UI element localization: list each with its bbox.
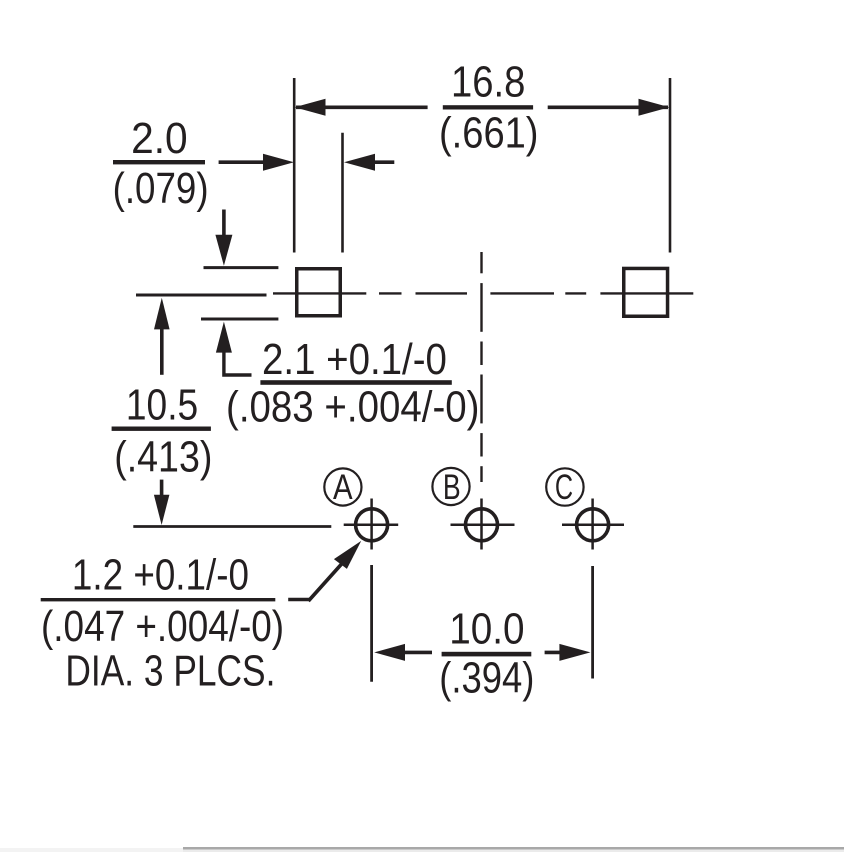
up arrow with L leader (2.1 dim bottom) (216, 322, 232, 353)
fraction bar 2.0 (113, 160, 205, 164)
fraction bar 16.8 (443, 105, 533, 109)
svg-text:DIA. 3 PLCS.: DIA. 3 PLCS. (65, 647, 275, 696)
extension line left of 16.8 dim (293, 78, 296, 253)
dim line 16.8 left segment (296, 106, 428, 110)
square hole 2 (624, 268, 668, 316)
10.0 dim right arrow (545, 651, 561, 655)
arrowhead right 16.8 (639, 99, 670, 116)
10.5 down arrow (160, 480, 164, 496)
svg-text:(.083 +.004/-0): (.083 +.004/-0) (226, 383, 480, 432)
extension line below hole A (370, 565, 373, 682)
10.5 up arrow (154, 298, 170, 330)
down arrow (2.1 dim top) (222, 210, 226, 238)
svg-text:1.2 +0.1/-0: 1.2 +0.1/-0 (72, 551, 249, 600)
hole B circle (466, 509, 498, 541)
short extension line at square top (204, 266, 279, 269)
horizontal centerline through squares (273, 292, 366, 294)
svg-text:A: A (333, 468, 353, 507)
svg-text:C: C (555, 468, 573, 507)
underline 1.2 (41, 598, 276, 601)
balloon A (324, 468, 361, 505)
extension line right of 16.8 dim (669, 78, 672, 253)
arrowhead left 16.8 (295, 99, 326, 116)
10.5 dim extension line bottom (133, 525, 331, 528)
short extension line at square bottom (201, 318, 278, 321)
arrow pointing right (2.0 dim) (219, 160, 266, 164)
svg-text:(.047 +.004/-0): (.047 +.004/-0) (41, 602, 284, 651)
hole C circle (577, 509, 609, 541)
leader line to hole A (288, 598, 310, 602)
bottom bar left light (0, 848, 183, 852)
vertical centerline (480, 252, 482, 273)
hole A circle (356, 509, 388, 541)
bottom bar right light (183, 850, 844, 852)
fraction bar 10.5 (112, 427, 211, 431)
extension line middle (2.0 dim) (341, 133, 344, 253)
svg-text:(.413): (.413) (114, 433, 212, 482)
svg-text:(.394): (.394) (439, 654, 534, 703)
arrow pointing left (2.0 dim) (344, 154, 375, 171)
extension line below hole C (591, 566, 594, 679)
balloon C (546, 468, 583, 505)
10.5 dim extension line top (136, 294, 267, 297)
svg-text:2.0: 2.0 (131, 114, 188, 163)
dim line 16.8 right segment (548, 106, 668, 110)
bottom bar right gray line (183, 847, 844, 850)
svg-text:10.5: 10.5 (126, 381, 198, 430)
fraction bar 10.0 (442, 652, 532, 657)
balloon B (432, 468, 469, 505)
10.0 dim left arrow (374, 644, 405, 661)
svg-text:(.661): (.661) (439, 109, 539, 158)
underline 2.1 (260, 380, 451, 385)
svg-text:2.1 +0.1/-0: 2.1 +0.1/-0 (262, 335, 447, 384)
square hole 1 (297, 269, 341, 316)
svg-text:B: B (443, 468, 461, 507)
svg-text:(.079): (.079) (113, 164, 209, 213)
svg-text:10.0: 10.0 (449, 605, 524, 654)
svg-text:16.8: 16.8 (451, 58, 525, 107)
